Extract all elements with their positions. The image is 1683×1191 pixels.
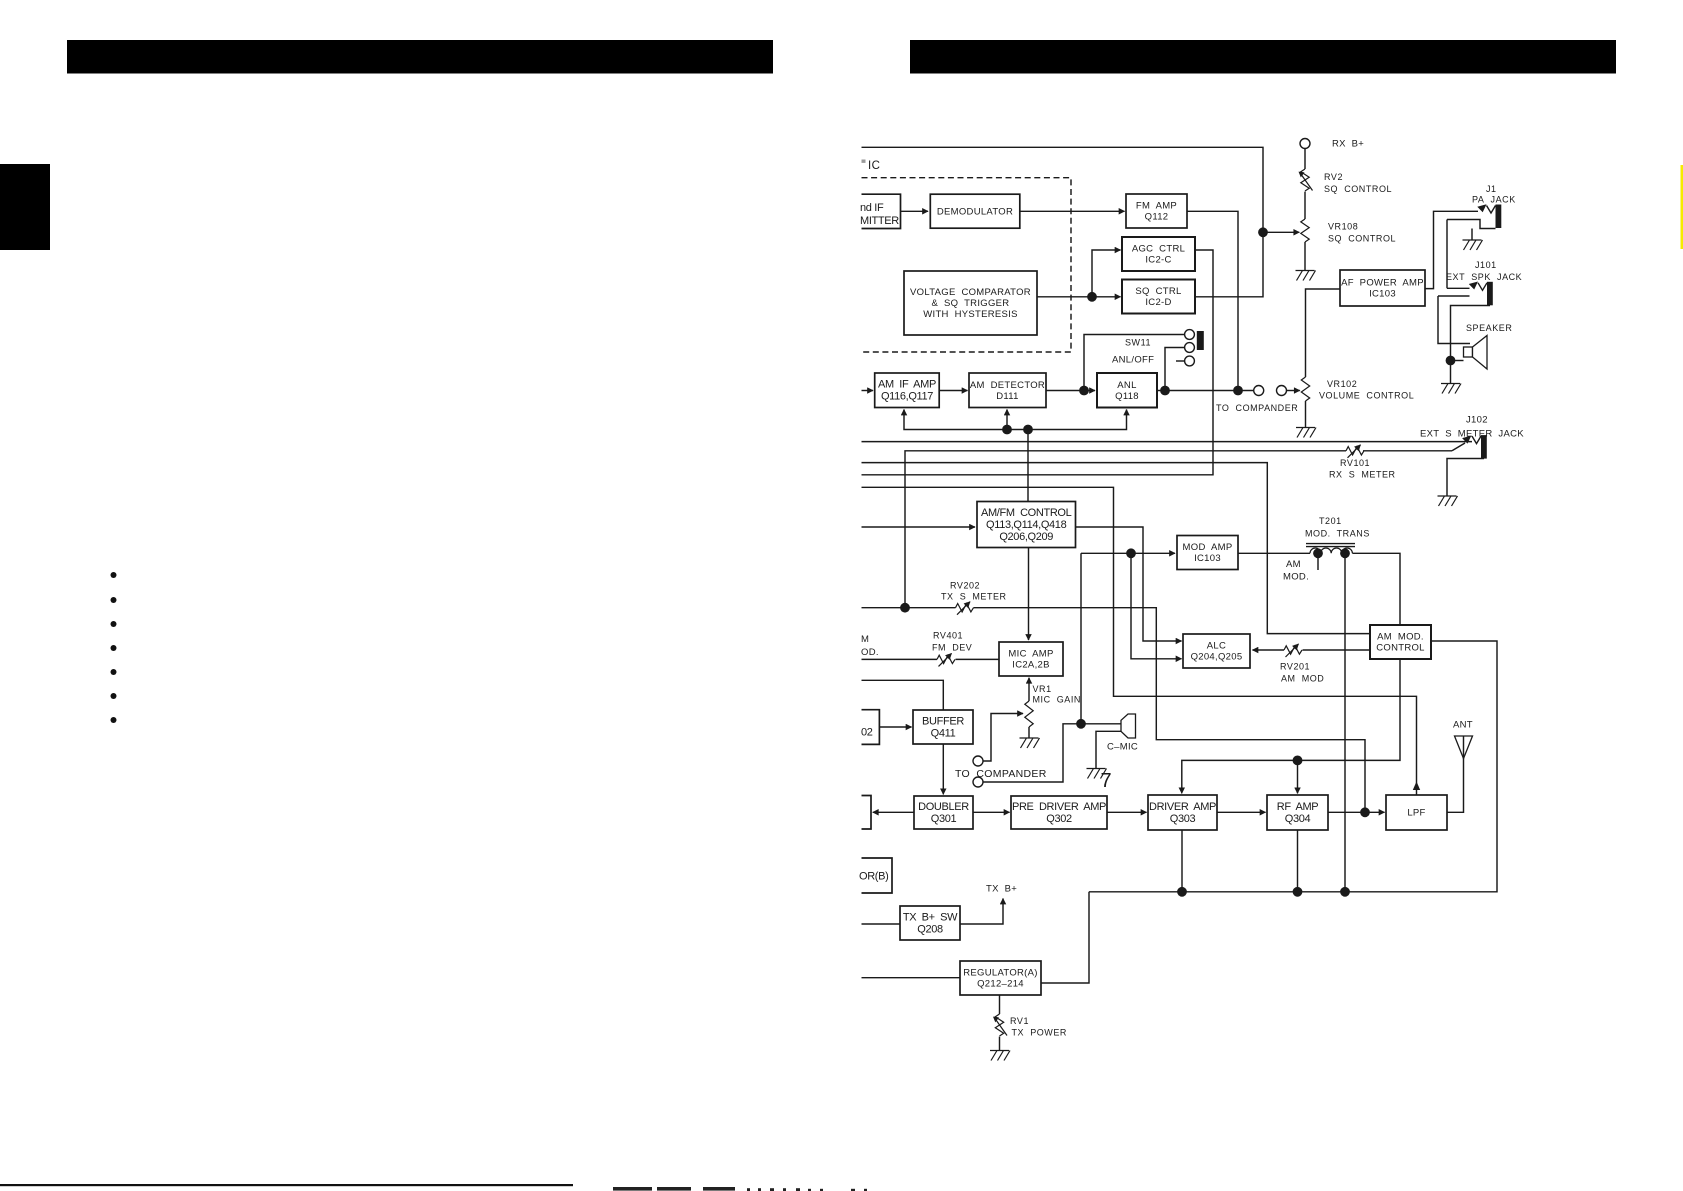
switch SW11 contact ANL — [1185, 330, 1195, 340]
terminal TO COMPANDER (return) — [1277, 386, 1287, 396]
arrowhead J1 tip — [1477, 204, 1486, 212]
wire VR1 bottom to ground — [1028, 727, 1030, 738]
svg-text:Q116,Q117: Q116,Q117 — [881, 391, 933, 403]
wire AM DETECTOR to ANL — [1046, 390, 1095, 392]
wire bus into AM/FM CONTROL — [862, 526, 976, 528]
svg-text:Q411: Q411 — [931, 727, 956, 739]
wire AM/FM CONTROL to feedback line — [1027, 430, 1029, 502]
wire S-meter lower line via RV101 — [905, 451, 1346, 608]
wire SW11 centre contact to ANL output — [1165, 348, 1185, 391]
microphone C-MIC symbol — [1121, 714, 1136, 738]
svg-text:RF AMP: RF AMP — [1277, 801, 1319, 813]
box VOLTAGE COMPARATOR &amp; SQ TRIGGER — [904, 271, 1037, 335]
antenna ANT symbol — [1455, 736, 1473, 759]
terminal TO COMPANDER mic side (return) — [973, 756, 983, 766]
wire comparator output to SQ CTRL — [1037, 296, 1121, 298]
wire compander send from C-MIC junction — [983, 724, 1077, 782]
svg-text:J102: J102 — [1466, 415, 1488, 426]
svg-text:Q301: Q301 — [931, 813, 957, 825]
junction supply bus at mod transformer — [1340, 887, 1350, 897]
svg-text:AM/FM CONTROL: AM/FM CONTROL — [981, 507, 1072, 519]
wire J102 sleeve to ground — [1447, 459, 1484, 496]
wire REGULATOR down to RV1 TX POWER — [999, 995, 1001, 1014]
bottom rule line — [0, 1184, 573, 1186]
svg-text:DRIVER AMP: DRIVER AMP — [1149, 801, 1216, 813]
svg-text:M: M — [861, 634, 869, 645]
wire REGULATOR output to PA supply bus — [1041, 892, 1089, 983]
svg-text:J1: J1 — [1486, 184, 1497, 194]
svg-text:7: 7 — [1101, 770, 1112, 792]
svg-text:RV401: RV401 — [933, 631, 963, 641]
wire ALC/TX-meter bus to LPF sense — [862, 487, 1417, 794]
svg-text:AM IF AMP: AM IF AMP — [878, 379, 936, 391]
wire AM/FM CONTROL output to ALC input 1 — [1076, 527, 1182, 641]
wire PA supply bus along bottom — [1089, 641, 1497, 892]
detector AM DETECTOR D111 — [969, 373, 1046, 408]
svg-text:RV202: RV202 — [950, 581, 980, 591]
ground below C-MIC — [1087, 769, 1107, 779]
wire RV1 to ground — [999, 1037, 1001, 1050]
wire RV101 to J102 arrow — [1363, 450, 1452, 452]
wire VR108 to ground — [1304, 242, 1306, 270]
svg-text:Q303: Q303 — [1170, 813, 1196, 825]
wire AF POWER AMP output up to J1 — [1425, 211, 1478, 288]
wire J101 switch contact to speaker — [1438, 296, 1470, 344]
wire control line into TX B+ SW — [862, 923, 901, 925]
svg-text:VR102: VR102 — [1327, 379, 1357, 389]
svg-text:Q118: Q118 — [1115, 391, 1139, 402]
svg-text:IC2-D: IC2-D — [1145, 297, 1171, 308]
wire branch up to AGC CTRL — [1092, 250, 1121, 297]
svg-text:MOD.: MOD. — [1283, 572, 1309, 583]
junction PA feed at RF AMP — [1293, 756, 1303, 766]
wire mic audio branch to ALC input 2 — [1131, 553, 1182, 659]
switch SW11 contact common — [1185, 343, 1195, 353]
ground below J102 — [1438, 496, 1458, 506]
ground below VR108 — [1296, 271, 1316, 281]
wire speaker bottom terminal — [1451, 360, 1464, 362]
wire FM deviation line from page edge — [862, 658, 938, 660]
svg-text:MIC AMP: MIC AMP — [1008, 649, 1053, 660]
amplifier DRIVER AMP Q303 — [1148, 795, 1217, 830]
junction T201 tap (AM MOD.) — [1313, 548, 1323, 558]
junction C-MIC to mic audio line — [1076, 719, 1086, 729]
wire SQ CTRL output up and across top to left page edge — [862, 147, 1264, 296]
junction detector output to SW11 — [1079, 386, 1089, 396]
wire VR102 bottom to ground — [1305, 401, 1307, 427]
wire J1 sleeve to ground — [1471, 229, 1473, 240]
wire VR102 wiper from compander — [1286, 390, 1300, 392]
svg-text:J101: J101 — [1475, 260, 1497, 270]
wire RV201 to ALC — [1253, 649, 1285, 651]
potentiometer VR1 MIC GAIN — [1025, 701, 1033, 727]
controller AM MOD. CONTROL — [1370, 625, 1431, 659]
wire RF AMP to LPF — [1328, 811, 1385, 813]
wire J1 sleeve step — [1447, 220, 1496, 229]
svg-text:RV201: RV201 — [1280, 662, 1310, 672]
junction on SQ control line at VR108 takeoff — [1258, 227, 1268, 237]
wire PRE DRIVER to DRIVER AMP — [1107, 811, 1147, 813]
arrowhead J101 tip — [1469, 282, 1478, 290]
svg-text:02: 02 — [861, 727, 873, 739]
header bar right page — [910, 40, 1616, 74]
wire mic audio down to C-MIC junction — [1080, 553, 1082, 724]
svg-text:SW11: SW11 — [1125, 338, 1151, 348]
junction RF output sense before LPF — [1360, 807, 1370, 817]
trimmer RV202 TX S METER — [956, 602, 974, 615]
wire SW11 OFF stub — [1176, 360, 1185, 362]
trimmer RV101 RX S METER — [1346, 445, 1364, 458]
svg-text:T201: T201 — [1319, 516, 1342, 526]
controller ALC Q204,Q205 — [1183, 634, 1250, 668]
wire RV202 to RF output sense — [974, 608, 1366, 813]
wire FM AMP output down to compander line — [1187, 211, 1238, 390]
svg-text:TX S METER: TX S METER — [941, 592, 1007, 602]
svg-text:Q206,Q209: Q206,Q209 — [999, 531, 1053, 543]
wire AM IF AMP to AM DETECTOR — [939, 390, 967, 392]
junction comparator output to AGC branch — [1087, 292, 1097, 302]
svg-text:ALC: ALC — [1207, 641, 1226, 652]
modulator MOD AMP IC103 — [1177, 536, 1238, 570]
switch SW11 contact OFF — [1185, 356, 1195, 366]
svg-text:Q204,Q205: Q204,Q205 — [1191, 652, 1243, 663]
svg-text:RV101: RV101 — [1340, 458, 1370, 468]
svg-text:TX POWER: TX POWER — [1012, 1028, 1067, 1038]
svg-text:AM MOD.: AM MOD. — [1377, 632, 1424, 643]
dashed outline of FM IF IC block (cut off at page fold) — [862, 178, 1072, 352]
junction feedback at AM DETECTOR branch — [1002, 425, 1012, 435]
connector J101 EXT SPK JACK — [1478, 282, 1493, 306]
wire MOD AMP output to T201 — [1238, 552, 1310, 554]
svg-text:AM DETECTOR: AM DETECTOR — [970, 380, 1045, 391]
wire RX input into AM IF AMP — [862, 390, 874, 392]
potentiometer VR102 VOLUME CONTROL — [1301, 377, 1309, 401]
svg-text:CONTROL: CONTROL — [1376, 643, 1425, 654]
wire AGC feedback to AM IF AMP — [904, 410, 1028, 430]
amplifier AF POWER AMP IC103 — [1340, 270, 1425, 306]
box DEMODULATOR — [930, 194, 1020, 228]
svg-text:EXT SPK JACK: EXT SPK JACK — [1446, 272, 1522, 282]
wire PA feed down into RF AMP — [1297, 760, 1299, 793]
svg-text:TO COMPANDER: TO COMPANDER — [955, 768, 1047, 780]
svg-text:IC103: IC103 — [1194, 553, 1221, 564]
junction ANL output to SW11 centre pole — [1160, 386, 1170, 396]
wire RV2 to VR108 — [1304, 192, 1306, 219]
svg-text:AM: AM — [1286, 559, 1301, 570]
junction supply bus at DRIVER AMP — [1177, 887, 1187, 897]
yellow highlight mark right edge — [1681, 165, 1683, 249]
svg-text:TO COMPANDER: TO COMPANDER — [1216, 403, 1298, 413]
svg-text:SQ CONTROL: SQ CONTROL — [1324, 184, 1392, 194]
box oscillator (cut) Q402 — [861, 710, 879, 745]
wire AGC feedback to ANL — [1028, 410, 1127, 430]
svg-text:WITH HYSTERESIS: WITH HYSTERESIS — [923, 309, 1018, 320]
wire 2nd IF box to DEMODULATOR — [901, 210, 929, 212]
svg-text:RV1: RV1 — [1010, 1016, 1029, 1026]
transformer T201 MOD. TRANS winding — [1306, 544, 1355, 554]
svg-text:DOUBLER: DOUBLER — [918, 801, 969, 813]
svg-text:ANL/OFF: ANL/OFF — [1112, 355, 1154, 366]
potentiometer VR108 SQ CONTROL — [1301, 219, 1309, 242]
svg-text:MOD. TRANS: MOD. TRANS — [1305, 529, 1370, 539]
svg-text:SQ CONTROL: SQ CONTROL — [1328, 234, 1396, 244]
amplifier AM IF AMP Q116,Q117 — [875, 373, 940, 408]
wire ANL output to compander terminal — [1157, 390, 1254, 392]
svg-text:DEMODULATOR: DEMODULATOR — [937, 206, 1013, 217]
svg-text:RX B+: RX B+ — [1332, 139, 1364, 150]
wire DOUBLER to PRE DRIVER AMP — [973, 811, 1010, 813]
svg-text:OR(B): OR(B) — [859, 871, 888, 883]
limiter ANL Q118 — [1097, 373, 1157, 408]
wire AGC CTRL output to AGC bus — [862, 250, 1214, 475]
wire VR1 to MIC AMP bottom — [1028, 678, 1030, 701]
bullet list on left page — [111, 572, 117, 723]
wire DEMODULATOR to FM AMP — [1020, 210, 1125, 212]
wire J101 sleeve down — [1451, 306, 1491, 384]
svg-text:BUFFER: BUFFER — [922, 715, 964, 727]
svg-text:MIC GAIN: MIC GAIN — [1033, 695, 1081, 705]
junction T201 to secondary drop — [1340, 548, 1350, 558]
wire T201 tap stub — [1317, 553, 1319, 570]
connector J102 EXT S METER JACK — [1472, 435, 1487, 459]
terminal RX B+ — [1300, 139, 1310, 149]
arrowhead LPF sense pointing up — [1413, 782, 1420, 791]
wire junction to VR108 wiper — [1263, 231, 1299, 233]
svg-text:MITTER: MITTER — [860, 215, 899, 227]
svg-text:Q212–214: Q212–214 — [977, 979, 1024, 990]
box 2nd IF AMP/LIMITER (cut off at page fold) — [860, 194, 901, 228]
ground below VR102 — [1296, 428, 1316, 438]
svg-text:SPEAKER: SPEAKER — [1466, 323, 1512, 333]
switch SW11 slider bar — [1197, 331, 1204, 350]
svg-text:ANL: ANL — [1117, 380, 1136, 391]
svg-text:OD.: OD. — [861, 647, 879, 658]
wire RV101 line slant to J102 arrow — [1452, 443, 1465, 451]
junction ANL output to FM AMP line — [1233, 386, 1243, 396]
trimmer RV401 FM DEV — [937, 653, 955, 666]
terminal TO COMPANDER (send) — [1254, 386, 1264, 396]
svg-text:nd IF: nd IF — [860, 202, 884, 214]
wire RF AMP bottom to supply bus — [1297, 830, 1299, 892]
svg-text:VOLTAGE COMPARATOR: VOLTAGE COMPARATOR — [910, 287, 1031, 298]
trimmer RV201 AM MOD — [1284, 644, 1302, 657]
ground below J1 — [1463, 240, 1483, 250]
controller AM/FM CONTROL Q113 Q114 Q418 Q206 Q209 — [977, 502, 1076, 548]
svg-text:TX B+: TX B+ — [986, 884, 1017, 895]
op-amp AGC CTRL IC2-C — [1122, 237, 1195, 271]
ground below RV1 TX POWER — [990, 1051, 1010, 1061]
svg-text:IC2-C: IC2-C — [1145, 255, 1171, 266]
junction speaker return — [1446, 356, 1456, 366]
wire compander return to VR1 wiper — [983, 714, 1024, 762]
svg-text:EXT S METER JACK: EXT S METER JACK — [1420, 429, 1524, 440]
svg-text:AM MOD: AM MOD — [1281, 674, 1324, 684]
wire junction to C-MIC — [1081, 723, 1121, 725]
ground below speaker — [1441, 384, 1461, 394]
wire AM MOD CONTROL bottom to PA feed — [1182, 659, 1400, 793]
stray cut text fragment left of IC label — [862, 160, 866, 163]
svg-text:VOLUME CONTROL: VOLUME CONTROL — [1319, 391, 1414, 401]
wire AM/FM CONTROL down to MIC AMP — [1028, 548, 1030, 641]
svg-text:PA JACK: PA JACK — [1472, 195, 1516, 205]
svg-text:& SQ TRIGGER: & SQ TRIGGER — [932, 298, 1010, 309]
svg-text:IC103: IC103 — [1369, 289, 1396, 300]
trimmer RV1 TX POWER — [993, 1014, 1007, 1036]
wire J1 switch contact down to J101 — [1446, 220, 1448, 289]
bottom cropped caption sliver — [613, 1187, 867, 1191]
svg-text:IC2A,2B: IC2A,2B — [1012, 660, 1049, 671]
junction mic audio to ALC branch — [1126, 548, 1136, 558]
box mixer (cut) left of DOUBLER — [862, 796, 872, 830]
wire AGC feedback to AM DETECTOR — [1006, 410, 1008, 430]
terminal TO COMPANDER mic side (send) — [973, 777, 983, 787]
svg-text:Q113,Q114,Q418: Q113,Q114,Q418 — [986, 519, 1067, 531]
svg-text:RX S METER: RX S METER — [1329, 470, 1396, 480]
wire T201 secondary down to supply bus — [1344, 553, 1346, 892]
svg-text:IC: IC — [868, 160, 880, 172]
speaker SPEAKER symbol — [1464, 336, 1488, 370]
buffer BUFFER Q411 — [913, 710, 973, 744]
wire S-meter bus to J102 tip — [862, 441, 1473, 443]
amplifier RF AMP Q304 — [1267, 795, 1328, 830]
svg-text:MOD AMP: MOD AMP — [1183, 542, 1233, 553]
svg-text:VR108: VR108 — [1328, 222, 1358, 232]
svg-text:Q112: Q112 — [1145, 212, 1169, 223]
svg-text:VR1: VR1 — [1033, 684, 1052, 694]
wire RX B+ to RV2 — [1304, 148, 1306, 169]
svg-text:Q208: Q208 — [917, 923, 943, 935]
multiplier DOUBLER Q301 — [914, 796, 973, 829]
svg-text:AF POWER AMP: AF POWER AMP — [1341, 278, 1424, 289]
svg-text:D111: D111 — [996, 391, 1019, 402]
wire SW11 upper contact to detector junction — [1084, 335, 1185, 391]
wire T201 right lead to AM MOD CONTROL — [1352, 553, 1400, 625]
connector J1 PA JACK — [1487, 205, 1502, 229]
regulator REGULATOR(A) Q212-214 — [960, 961, 1041, 995]
junction feedback at AM/FM control branch — [1023, 425, 1033, 435]
svg-text:AGC CTRL: AGC CTRL — [1132, 244, 1185, 255]
svg-text:Q304: Q304 — [1285, 813, 1311, 825]
amplifier PRE DRIVER AMP Q302 — [1011, 796, 1107, 829]
svg-text:REGULATOR(A): REGULATOR(A) — [963, 968, 1038, 979]
svg-text:Q302: Q302 — [1046, 813, 1072, 825]
header bar left page — [67, 40, 773, 74]
svg-text:RV2: RV2 — [1324, 172, 1343, 182]
trimmer RV2 SQ CONTROL — [1299, 169, 1313, 191]
wire VCO line into BUFFER — [862, 680, 944, 710]
op-amp MIC AMP IC2A,2B — [999, 642, 1063, 676]
wire AM MOD CONTROL to RV201 — [1303, 649, 1371, 651]
wire RX B+ bus to AM MOD CONTROL — [862, 463, 1371, 634]
filter LPF — [1386, 795, 1447, 830]
op-amp SQ CTRL IC2-D — [1122, 280, 1195, 314]
svg-text:TX B+ SW: TX B+ SW — [903, 911, 958, 923]
junction TX S meter to S-meter bus — [900, 603, 910, 613]
svg-text:PRE DRIVER AMP: PRE DRIVER AMP — [1012, 801, 1106, 813]
wire TX B+ SW output up to TX B+ — [960, 899, 1003, 925]
svg-text:ANT: ANT — [1453, 720, 1473, 731]
wire DRIVER AMP to RF AMP — [1217, 811, 1266, 813]
svg-text:FM DEV: FM DEV — [932, 643, 972, 653]
box oscillator(B) (cut at page fold) — [859, 858, 892, 893]
svg-text:LPF: LPF — [1407, 808, 1425, 819]
wire DOUBLER output to mixer (left) — [873, 811, 914, 813]
wire control line into REGULATOR(A) — [862, 977, 961, 979]
wire Q402 box to BUFFER — [879, 726, 911, 728]
op-amp FM AMP Q112 — [1126, 194, 1187, 228]
svg-text:C–MIC: C–MIC — [1107, 742, 1138, 753]
black index tab marker left edge — [0, 164, 50, 250]
wire LPF to antenna — [1447, 736, 1464, 812]
wire mic audio line to MOD AMP — [1081, 552, 1175, 554]
switch TX B+ SW Q208 — [900, 906, 960, 940]
svg-text:SQ CTRL: SQ CTRL — [1135, 286, 1181, 297]
ground below VR1 — [1020, 738, 1040, 748]
svg-text:FM AMP: FM AMP — [1136, 201, 1177, 212]
wire TX S meter line from page edge — [862, 607, 956, 609]
arrowhead J102 tip — [1462, 436, 1471, 444]
wire DRIVER AMP bottom to supply bus — [1181, 830, 1183, 892]
wire J101 tip line — [1447, 287, 1470, 289]
wire C-MIC return to ground — [1096, 731, 1121, 768]
wire VR102 top to AF POWER AMP — [1306, 289, 1341, 377]
wire BUFFER down to DOUBLER — [942, 744, 944, 794]
junction supply bus at RF AMP — [1293, 887, 1303, 897]
wire RV401 to MIC AMP — [956, 658, 1000, 660]
